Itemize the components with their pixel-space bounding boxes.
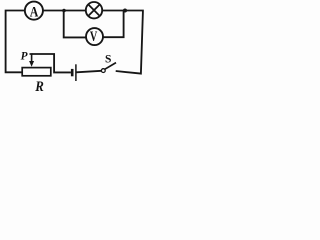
wire: voltmeter left branch from node A down and right	[64, 11, 86, 38]
rheostat slider arrow P	[29, 54, 34, 67]
wire: voltmeter right branch up to node B	[103, 11, 124, 38]
wire: battery positive to switch pivot	[76, 71, 101, 73]
battery cell: negative plate (short thick)	[71, 69, 74, 76]
voltmeter V	[86, 28, 103, 45]
wire left side: ammeter left terminal to rheostat left terminal	[6, 11, 25, 73]
node A junction dot	[62, 9, 66, 13]
lamp	[86, 2, 102, 18]
battery cell: positive plate (long thin)	[75, 64, 77, 81]
ammeter A	[25, 2, 43, 21]
node B junction dot	[123, 9, 127, 13]
svg-text:P: P	[21, 51, 28, 63]
wire: ammeter right terminal to lamp left terminal	[43, 10, 86, 12]
svg-text:A: A	[30, 5, 39, 21]
wire: rheostat slider to battery negative	[32, 54, 71, 72]
wire: lamp right terminal to top-right corner, down right side to switch contact	[102, 11, 143, 74]
svg-text:V: V	[90, 29, 98, 45]
switch S pivot	[101, 69, 105, 73]
svg-text:S: S	[105, 53, 111, 65]
svg-text:R: R	[34, 79, 44, 94]
rheostat R body	[22, 68, 51, 76]
switch S blade	[105, 63, 116, 70]
